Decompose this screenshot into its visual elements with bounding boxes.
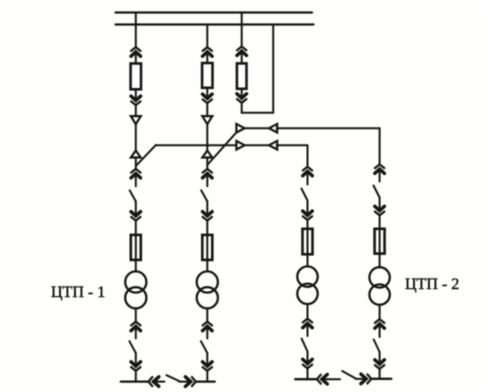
LV busbar 4 <box>372 378 392 380</box>
bus section 2 <box>116 23 314 25</box>
plug contact column 2 switch lower <box>203 201 213 220</box>
fuse column 3 distribution <box>303 229 313 255</box>
fuse column 4 distribution <box>375 229 385 254</box>
LV switch column 1 <box>129 341 135 353</box>
upper reserve line plug female <box>269 124 277 133</box>
wire feeder 1 drop from bus 1 <box>135 13 137 48</box>
wire <box>379 305 381 319</box>
transformer T2 <box>197 271 218 308</box>
transformer T3 <box>297 266 317 304</box>
plug contact column 4 switch upper <box>375 164 385 181</box>
plug contact column 3 LV lower <box>303 352 313 369</box>
wire <box>135 221 137 235</box>
plug contact column 1 LV lower <box>131 353 141 371</box>
plug contact column 2 LV upper <box>203 322 213 339</box>
wire <box>307 369 309 380</box>
plug contact column 4 LV upper <box>375 319 385 337</box>
fuse column 1 distribution <box>131 235 141 260</box>
LV tie 3-4 plug right <box>356 374 372 384</box>
plug contact column 2 switch upper <box>203 169 213 186</box>
plug contact column 3 switch lower <box>303 201 313 221</box>
lower reserve line plug male <box>236 141 244 150</box>
wire riser to bus 2 <box>272 25 274 113</box>
upper reserve line plug male <box>236 124 244 133</box>
disconnect switch column 3 <box>301 189 307 201</box>
wire <box>206 158 208 169</box>
wire <box>307 220 309 229</box>
plug contact feeder 1 upper <box>131 47 141 63</box>
tie switch blade 2 <box>208 132 237 164</box>
plug connector female feeder 1 <box>131 116 141 124</box>
wire feeder 3 elbow <box>242 103 274 113</box>
plug contact feeder 1 lower <box>131 89 141 105</box>
plug contact feeder 2 lower <box>203 88 213 103</box>
plug connector male column 2 <box>202 151 212 158</box>
bus section 1 <box>116 11 313 13</box>
wire <box>135 124 137 151</box>
wire feeder 3 drop from bus 1 <box>241 13 243 47</box>
fuse feeder 1 <box>131 64 141 90</box>
wire <box>206 308 208 321</box>
fuse column 2 distribution <box>202 235 212 260</box>
wire <box>379 254 381 268</box>
wire <box>307 304 309 319</box>
wire <box>135 260 137 272</box>
LV busbar 2 <box>196 380 215 382</box>
transformer T4 <box>369 267 389 305</box>
wire <box>206 260 208 272</box>
wire <box>135 308 137 321</box>
plug contact column 1 switch upper <box>131 169 141 186</box>
wire <box>206 103 208 116</box>
lower reserve line from switch 1 <box>156 144 237 146</box>
LV switch column 4 <box>374 340 380 353</box>
plug contact column 1 LV upper <box>131 322 141 339</box>
wire <box>206 371 208 382</box>
LV tie 1-2 plug left <box>148 377 164 387</box>
wire <box>379 216 381 229</box>
LV switch column 3 <box>302 339 308 352</box>
plug contact column 4 switch lower <box>375 198 385 216</box>
LV tie 3-4 switch blade <box>342 371 355 378</box>
disconnect switch column 2 <box>201 190 207 201</box>
plug contact column 3 LV upper <box>303 319 313 336</box>
fuse feeder 2 <box>202 63 212 88</box>
wire <box>135 371 137 382</box>
LV switch column 2 <box>201 341 207 353</box>
LV busbar 3 <box>295 378 317 380</box>
plug connector female feeder 2 <box>202 116 212 124</box>
wire <box>135 105 137 116</box>
LV tie 1-2 plug right <box>179 377 196 387</box>
disconnect switch column 1 <box>130 190 136 201</box>
wire <box>307 254 309 266</box>
LV busbar 1 <box>121 380 148 382</box>
plug contact feeder 3 upper <box>237 47 247 64</box>
lower reserve line run <box>277 145 308 166</box>
transformer T1 <box>125 271 146 308</box>
fuse feeder 3 <box>237 63 247 88</box>
wire <box>206 124 208 151</box>
plug contact feeder 2 upper <box>203 47 213 63</box>
disconnect switch column 4 <box>374 186 380 198</box>
lower reserve line plug female <box>269 141 277 150</box>
wire <box>379 369 381 379</box>
wire <box>206 221 208 235</box>
label CTP-1 <box>51 284 105 302</box>
plug contact column 2 LV lower <box>203 353 213 371</box>
LV tie 1-2 switch blade <box>167 375 180 381</box>
plug contact column 1 switch lower <box>131 201 141 220</box>
upper reserve line <box>245 127 269 129</box>
upper reserve line run <box>277 128 380 164</box>
plug contact feeder 3 lower <box>237 89 247 103</box>
plug contact column 3 switch upper <box>303 167 313 185</box>
tie switch blade 1 <box>136 145 156 166</box>
label CTP-2 <box>405 276 459 294</box>
wire feeder 2 drop from bus 2 <box>206 25 208 48</box>
plug contact column 4 LV lower <box>375 352 385 369</box>
LV tie 3-4 plug left <box>317 374 340 384</box>
lower reserve line <box>245 144 269 146</box>
wire <box>135 158 137 169</box>
plug connector male column 1 <box>131 151 141 158</box>
